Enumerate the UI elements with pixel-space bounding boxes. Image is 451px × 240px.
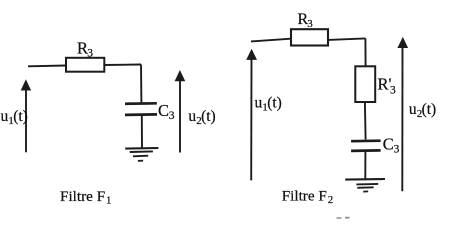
svg-text:2: 2 (328, 194, 334, 206)
label R3 (Filtre F1) (77, 39, 93, 60)
voltage arrow u1(t) (Filtre F1) (21, 79, 31, 152)
wire F2 R'3 to capacitor (364, 102, 367, 140)
svg-text:3: 3 (394, 144, 400, 156)
label Filtre F1 (60, 188, 112, 206)
svg-text:Filtre F: Filtre F (282, 188, 327, 205)
svg-text:3: 3 (307, 18, 313, 30)
label C3 (Filtre F2) (383, 135, 400, 156)
svg-text:3: 3 (390, 84, 396, 96)
svg-text:u: u (255, 95, 263, 112)
label u2(t) (Filtre F1) (188, 108, 215, 127)
svg-text:u: u (409, 101, 417, 118)
label C3 (Filtre F1) (158, 101, 175, 122)
label R'3 (Filtre F2) (378, 75, 397, 97)
capacitor C3 (Filtre F2) (351, 141, 381, 151)
label u1(t) (Filtre F2) (255, 95, 282, 114)
svg-text:(t): (t) (13, 108, 28, 125)
svg-text:C: C (158, 101, 169, 120)
resistor R3 (Filtre F2) (291, 29, 328, 45)
wire F1 input left segment (28, 65, 66, 68)
svg-text:Filtre F: Filtre F (60, 188, 105, 205)
svg-text:3: 3 (87, 48, 93, 60)
ground (Filtre F1) (125, 148, 158, 161)
wire F1 vertical down to capacitor (140, 65, 142, 103)
svg-text:u: u (188, 108, 196, 125)
svg-text:u: u (1, 108, 9, 125)
voltage arrow u1(t) (Filtre F2) (246, 49, 257, 181)
label u1(t) (Filtre F1) (1, 108, 28, 127)
label Filtre F2 (282, 188, 334, 206)
svg-text:C: C (383, 135, 394, 154)
resistor R'3 (Filtre F2) (355, 66, 375, 102)
wire F2 capacitor to ground (364, 152, 366, 179)
svg-text:(t): (t) (267, 95, 282, 112)
wire F1 capacitor to ground (141, 116, 143, 148)
svg-text:1: 1 (106, 194, 112, 206)
label u2(t) (Filtre F2) (409, 101, 436, 120)
ground (Filtre F2) (345, 179, 385, 192)
capacitor C3 (Filtre F1) (125, 103, 157, 115)
wire F1 resistor to top-right corner (104, 64, 141, 67)
svg-text:(t): (t) (201, 108, 216, 125)
resistor R3 (Filtre F1) (66, 58, 104, 72)
wire F2 input left segment (251, 39, 291, 42)
svg-text:(t): (t) (422, 101, 437, 118)
svg-text:3: 3 (169, 110, 175, 122)
label R3 (Filtre F2) (298, 11, 314, 30)
wire F2 resistor to top-right corner (328, 38, 365, 40)
voltage arrow u2(t) (Filtre F1) (175, 70, 186, 153)
voltage arrow u2(t) (Filtre F2) (397, 37, 408, 191)
wire F2 corner down to R'3 (364, 38, 366, 66)
